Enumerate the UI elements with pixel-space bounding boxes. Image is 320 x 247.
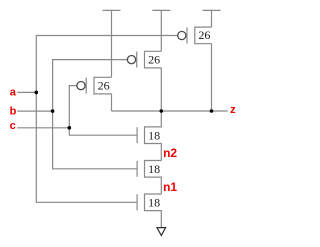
svg-text:18: 18 — [148, 162, 160, 176]
svg-text:n2: n2 — [163, 146, 177, 160]
svg-text:26: 26 — [198, 28, 210, 42]
svg-text:a: a — [10, 87, 17, 99]
svg-text:18: 18 — [148, 128, 160, 142]
svg-text:b: b — [10, 106, 17, 118]
svg-text:n1: n1 — [163, 180, 177, 194]
svg-text:c: c — [10, 120, 16, 132]
svg-text:26: 26 — [148, 52, 160, 66]
svg-text:18: 18 — [148, 196, 160, 210]
svg-text:z: z — [230, 104, 236, 116]
svg-text:26: 26 — [98, 78, 110, 92]
